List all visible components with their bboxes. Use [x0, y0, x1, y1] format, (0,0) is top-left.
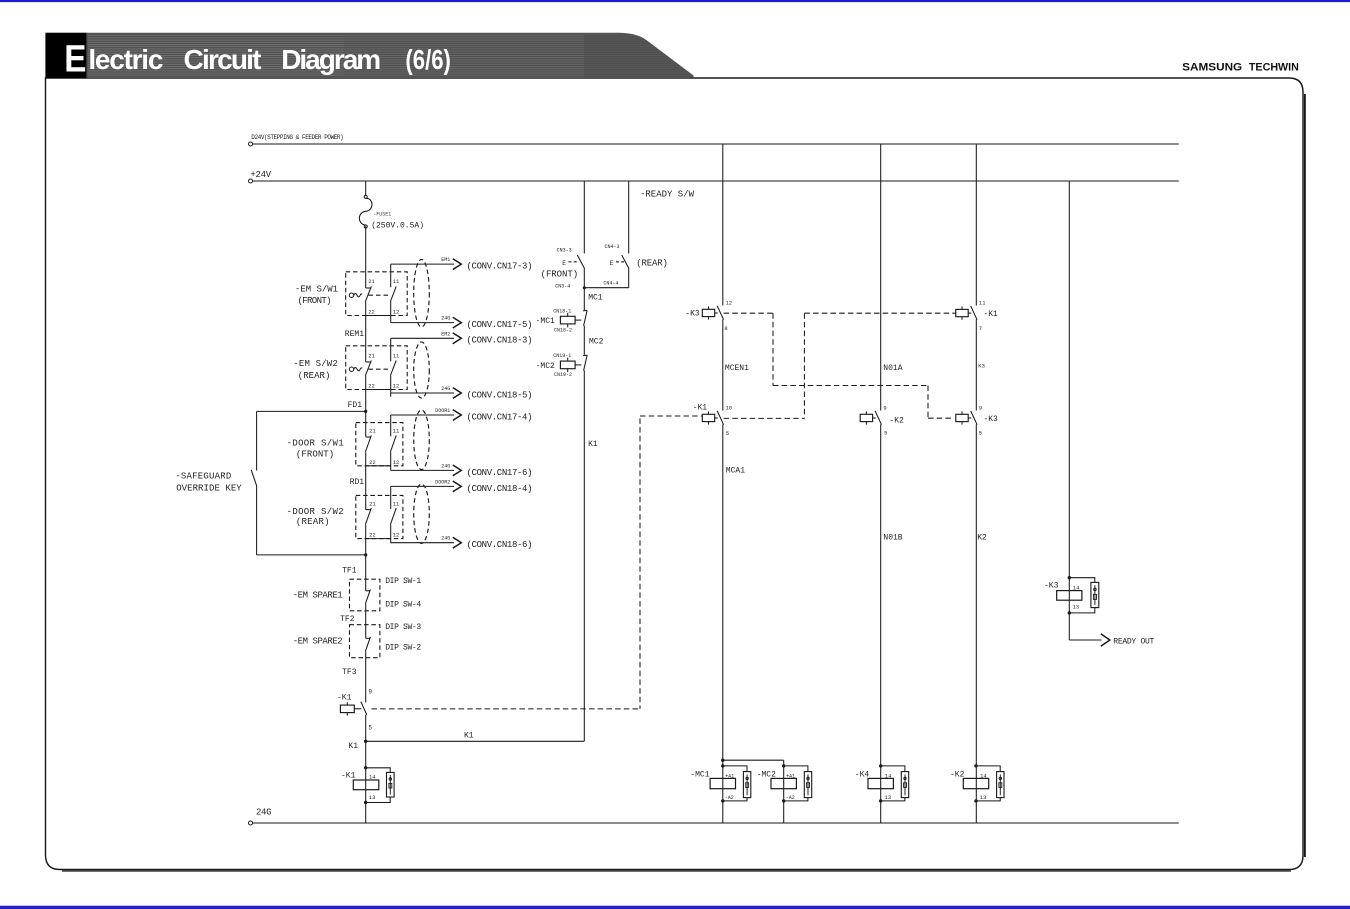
svg-text:(FRONT): (FRONT) [298, 296, 332, 306]
svg-text:12: 12 [393, 532, 400, 539]
svg-text:12: 12 [393, 308, 400, 315]
svg-text:EM1: EM1 [441, 257, 450, 263]
mechanical link K1 chain (dashed) [372, 416, 702, 709]
relay contact -K1 (pins 10/5, MCEN line) [693, 404, 732, 438]
svg-text:11: 11 [393, 428, 400, 435]
svg-text:-K4: -K4 [855, 770, 870, 779]
relay contact -K2 (pins 9/5, N01 line) [860, 405, 904, 437]
svg-text:22: 22 [369, 532, 376, 539]
svg-text:22: 22 [369, 459, 376, 466]
svg-text:MC2: MC2 [589, 338, 604, 347]
svg-text:DOOR2: DOOR2 [435, 479, 450, 485]
wire N01 bus (x=880.7) [880, 144, 882, 823]
svg-text:-MC1: -MC1 [536, 317, 555, 326]
svg-text:EM2: EM2 [441, 331, 450, 337]
svg-text:SAMSUNGTECHWIN: SAMSUNGTECHWIN [1182, 62, 1299, 74]
svg-text:-K3: -K3 [1044, 582, 1059, 591]
svg-text:-SAFEGUARD: -SAFEGUARD [175, 472, 231, 482]
relay coil -K2 (14/13) [950, 764, 1004, 802]
svg-text:(CONV.CN17-3): (CONV.CN17-3) [467, 262, 533, 272]
svg-text:-EM S/W2: -EM S/W2 [293, 359, 338, 369]
svg-text:-MC2: -MC2 [757, 770, 776, 779]
svg-text:MCA1: MCA1 [726, 467, 745, 476]
svg-text:13: 13 [369, 794, 376, 801]
svg-text:(CONV.CN18-6): (CONV.CN18-6) [467, 540, 533, 550]
wire EM1 to (CONV.CN17-3) [391, 257, 533, 271]
svg-text:-K1: -K1 [337, 694, 352, 703]
top blue rule [0, 0, 1350, 2]
svg-text:24G: 24G [441, 536, 450, 542]
svg-text:(CONV.CN17-5): (CONV.CN17-5) [467, 320, 533, 330]
svg-text:24G: 24G [441, 316, 450, 322]
svg-text:(REAR): (REAR) [636, 259, 668, 269]
wire 24G to (CONV.CN17-6) [391, 463, 533, 477]
relay coil -MC2 (+A1/-A2) [757, 764, 812, 802]
svg-text:14: 14 [369, 774, 376, 781]
svg-text:9: 9 [883, 405, 886, 412]
svg-text:-DOOR S/W2: -DOOR S/W2 [287, 507, 344, 517]
svg-text:24G: 24G [256, 808, 272, 818]
svg-text:12: 12 [393, 459, 400, 466]
svg-text:12: 12 [726, 300, 733, 307]
node K2 wire label [977, 534, 987, 543]
wire 24G to (CONV.CN18-5) [391, 386, 533, 400]
svg-text:9: 9 [368, 688, 372, 695]
svg-text:K2: K2 [977, 534, 987, 543]
svg-text:CN18-1: CN18-1 [553, 308, 571, 314]
wire DOOR1 to (CONV.CN17-4) [391, 408, 533, 422]
svg-text:TF1: TF1 [342, 566, 357, 575]
svg-text:-EM SPARE2: -EM SPARE2 [293, 637, 343, 647]
svg-text:CN18-2: CN18-2 [554, 327, 572, 333]
svg-text:5: 5 [884, 430, 887, 437]
relay contact -K1 (pins 11/7, K3 line) [956, 300, 998, 332]
wire 24G to (CONV.CN17-5) [391, 316, 533, 330]
node N01B label [883, 534, 902, 543]
svg-text:-K2: -K2 [950, 770, 965, 779]
svg-text:22: 22 [368, 382, 375, 389]
svg-text:-K2: -K2 [889, 416, 904, 425]
svg-text:DIP SW-3: DIP SW-3 [385, 623, 421, 632]
svg-text:+24V: +24V [250, 170, 271, 180]
svg-text:24G: 24G [441, 463, 450, 469]
svg-text:-K1: -K1 [341, 771, 356, 780]
svg-text:-K3: -K3 [685, 310, 700, 319]
svg-text:11: 11 [393, 500, 400, 507]
node K3 wire label [978, 363, 985, 370]
switch EM SPARE1 (DIP SW-1/SW-4) [293, 566, 422, 611]
svg-text:DIP SW-1: DIP SW-1 [385, 577, 421, 586]
svg-text:10: 10 [726, 405, 733, 412]
fuse FUSE1 (250V,0.5A) [359, 181, 424, 230]
switch DOOR S/W1 (FRONT) [287, 410, 430, 487]
svg-text:(250V.0.5A): (250V.0.5A) [371, 221, 424, 230]
svg-text:24G: 24G [441, 386, 450, 392]
svg-text:-EM SPARE1: -EM SPARE1 [293, 591, 343, 601]
mechanical link K1 upper chain (dashed) [724, 313, 956, 418]
node N01A label [883, 364, 902, 373]
svg-text:+A1: +A1 [786, 773, 795, 779]
svg-text:(CONV.CN18-4): (CONV.CN18-4) [467, 484, 533, 494]
svg-text:(CONV.CN17-4): (CONV.CN17-4) [467, 412, 533, 422]
wire main bus (x=365.7) [365, 226, 367, 823]
relay coil -MC1 (+A1/-A2) [690, 764, 751, 802]
svg-text:(REAR): (REAR) [298, 371, 331, 381]
svg-text:5: 5 [368, 725, 372, 732]
svg-text:8: 8 [724, 325, 727, 332]
switch DOOR S/W2 (REAR) [287, 484, 430, 543]
svg-text:K1: K1 [588, 440, 598, 449]
svg-text:5: 5 [979, 430, 982, 437]
svg-text:+A1: +A1 [725, 773, 734, 779]
node MC2 label [589, 338, 604, 347]
svg-text:E: E [562, 260, 566, 267]
svg-text:11: 11 [393, 278, 400, 285]
svg-text:-READY S/W: -READY S/W [640, 190, 695, 200]
switch SAFEGUARD OVERRIDE KEY [175, 410, 367, 557]
title bar [45, 33, 697, 78]
svg-text:-A2: -A2 [786, 795, 795, 801]
svg-text:-K3: -K3 [983, 415, 998, 424]
mechanical link K3 chain (dashed) [724, 313, 954, 418]
svg-text:CN4-4: CN4-4 [603, 280, 618, 286]
relay contact -MC1 (CN18-1/CN18-2) [536, 308, 588, 333]
svg-text:RD1: RD1 [350, 478, 365, 487]
wire DOOR2 to (CONV.CN18-4) [391, 479, 533, 493]
svg-text:21: 21 [369, 500, 376, 507]
svg-text:TF2: TF2 [340, 615, 355, 624]
svg-text:14: 14 [1073, 584, 1080, 591]
wire MC2 coil branch (x=783.7) [723, 760, 784, 823]
svg-text:5: 5 [726, 430, 729, 437]
svg-text:11: 11 [979, 300, 986, 307]
svg-text:K3: K3 [978, 363, 985, 370]
wire K3 coil branch (x=1069.3) [1068, 181, 1070, 640]
svg-text:OVERRIDE KEY: OVERRIDE KEY [176, 483, 242, 493]
svg-text:-EM S/W1: -EM S/W1 [295, 285, 338, 295]
svg-text:(FRONT): (FRONT) [541, 269, 579, 279]
svg-text:7: 7 [979, 325, 982, 332]
wire READY OUT [1069, 634, 1154, 647]
svg-text:21: 21 [369, 428, 376, 435]
svg-text:E: E [610, 260, 614, 267]
wire 24G to (CONV.CN18-6) [391, 536, 533, 550]
svg-text:DIP SW-4: DIP SW-4 [385, 601, 421, 610]
node MCA1 label [726, 467, 745, 476]
svg-text:-FUSE1: -FUSE1 [373, 212, 391, 218]
svg-text:-K1: -K1 [693, 404, 708, 413]
svg-text:12: 12 [393, 382, 400, 389]
svg-text:FD1: FD1 [348, 401, 363, 410]
svg-text:13: 13 [884, 794, 891, 801]
relay contact -K3 (pins 12/8, MCEN line) [685, 300, 732, 333]
svg-text:(CONV.CN17-6): (CONV.CN17-6) [467, 468, 533, 478]
svg-text:-MC2: -MC2 [536, 362, 555, 371]
svg-text:K1: K1 [348, 742, 358, 751]
svg-text:14: 14 [980, 772, 987, 779]
svg-text:N01B: N01B [883, 534, 902, 543]
svg-text:TF3: TF3 [342, 668, 357, 677]
svg-text:13: 13 [980, 794, 987, 801]
switch EM S/W2 (REAR) [293, 338, 429, 410]
svg-text:-A2: -A2 [725, 795, 734, 801]
svg-text:9: 9 [979, 405, 982, 412]
svg-text:21: 21 [368, 278, 375, 285]
svg-text:-K1: -K1 [983, 310, 998, 319]
wire MCEN bus (x=722.8) [721, 144, 724, 823]
key contact E CN3-3/CN3-4 (FRONT) [541, 247, 585, 289]
svg-text:CN19-2: CN19-2 [554, 372, 572, 378]
relay coil -K1 (14/13) [341, 766, 394, 804]
svg-text:14: 14 [885, 772, 892, 779]
svg-text:E: E [64, 38, 86, 80]
switch READY S/W label [640, 190, 695, 200]
svg-text:REM1: REM1 [345, 330, 364, 339]
relay coil -K3 (14/13, right) [1044, 576, 1099, 615]
node K1 wire label [588, 440, 598, 449]
svg-text:-DOOR S/W1: -DOOR S/W1 [287, 438, 344, 448]
svg-text:D24V(STEPPING & FEEDER POWER): D24V(STEPPING & FEEDER POWER) [251, 134, 343, 141]
power rail D24V (node + wire + label) [249, 134, 1179, 146]
svg-text:K1: K1 [464, 732, 474, 741]
svg-text:(CONV.CN18-5): (CONV.CN18-5) [467, 390, 533, 400]
svg-text:(REAR): (REAR) [296, 517, 330, 527]
bottom navy rule [0, 906, 1350, 909]
wire READY rear branch (x=628.7) [583, 181, 629, 289]
svg-text:11: 11 [393, 352, 400, 359]
svg-text:READY OUT: READY OUT [1113, 638, 1154, 647]
svg-text:N01A: N01A [883, 364, 902, 373]
svg-text:(CONV.CN18-3): (CONV.CN18-3) [467, 336, 533, 346]
svg-text:MCEN1: MCEN1 [725, 364, 749, 373]
svg-text:DIP SW-2: DIP SW-2 [385, 644, 421, 653]
wire K3/K2 bus (x=976.3) [975, 144, 977, 823]
relay contact -K3 (pins 9/5, K3 line) [956, 405, 998, 437]
svg-text:MC1: MC1 [588, 293, 603, 302]
relay contact -MC2 (CN19-1/CN19-2) [536, 353, 588, 378]
power rail +24V (node + wire + label) [249, 170, 1179, 183]
svg-text:CN19-1: CN19-1 [553, 353, 571, 359]
svg-text:CN4-3: CN4-3 [605, 244, 620, 250]
logo text SAMSUNG TECHWIN [1182, 62, 1299, 74]
svg-text:22: 22 [368, 308, 375, 315]
svg-text:21: 21 [368, 352, 375, 359]
node MC1 label [588, 293, 603, 302]
relay contact -K1 (pins 9/5, bottom left) [337, 688, 372, 731]
switch EM S/W1 (FRONT) [295, 259, 429, 339]
svg-text:CN3-3: CN3-3 [557, 247, 572, 253]
wire EM2 to (CONV.CN18-3) [391, 331, 533, 345]
svg-text:13: 13 [1073, 604, 1080, 611]
svg-text:-MC1: -MC1 [690, 770, 709, 779]
wire K1 row (y=741.3) [348, 732, 584, 751]
wire K1 branch bus (x=584.3) [583, 181, 585, 741]
svg-text:CN3-4: CN3-4 [555, 284, 570, 290]
ground rail 24G (node + wire + label) [249, 808, 1179, 826]
svg-text:(FRONT): (FRONT) [296, 450, 334, 460]
title text "Electric Circuit Diagram (6/6)" [64, 38, 451, 80]
relay coil -K4 (14/13) [855, 764, 909, 802]
svg-text:DOOR1: DOOR1 [435, 408, 450, 414]
node MCEN1 label [725, 364, 749, 373]
switch EM SPARE2 (DIP SW-3/SW-2) [293, 615, 422, 677]
key contact E CN4-3/CN4-4 (REAR) [603, 244, 667, 286]
